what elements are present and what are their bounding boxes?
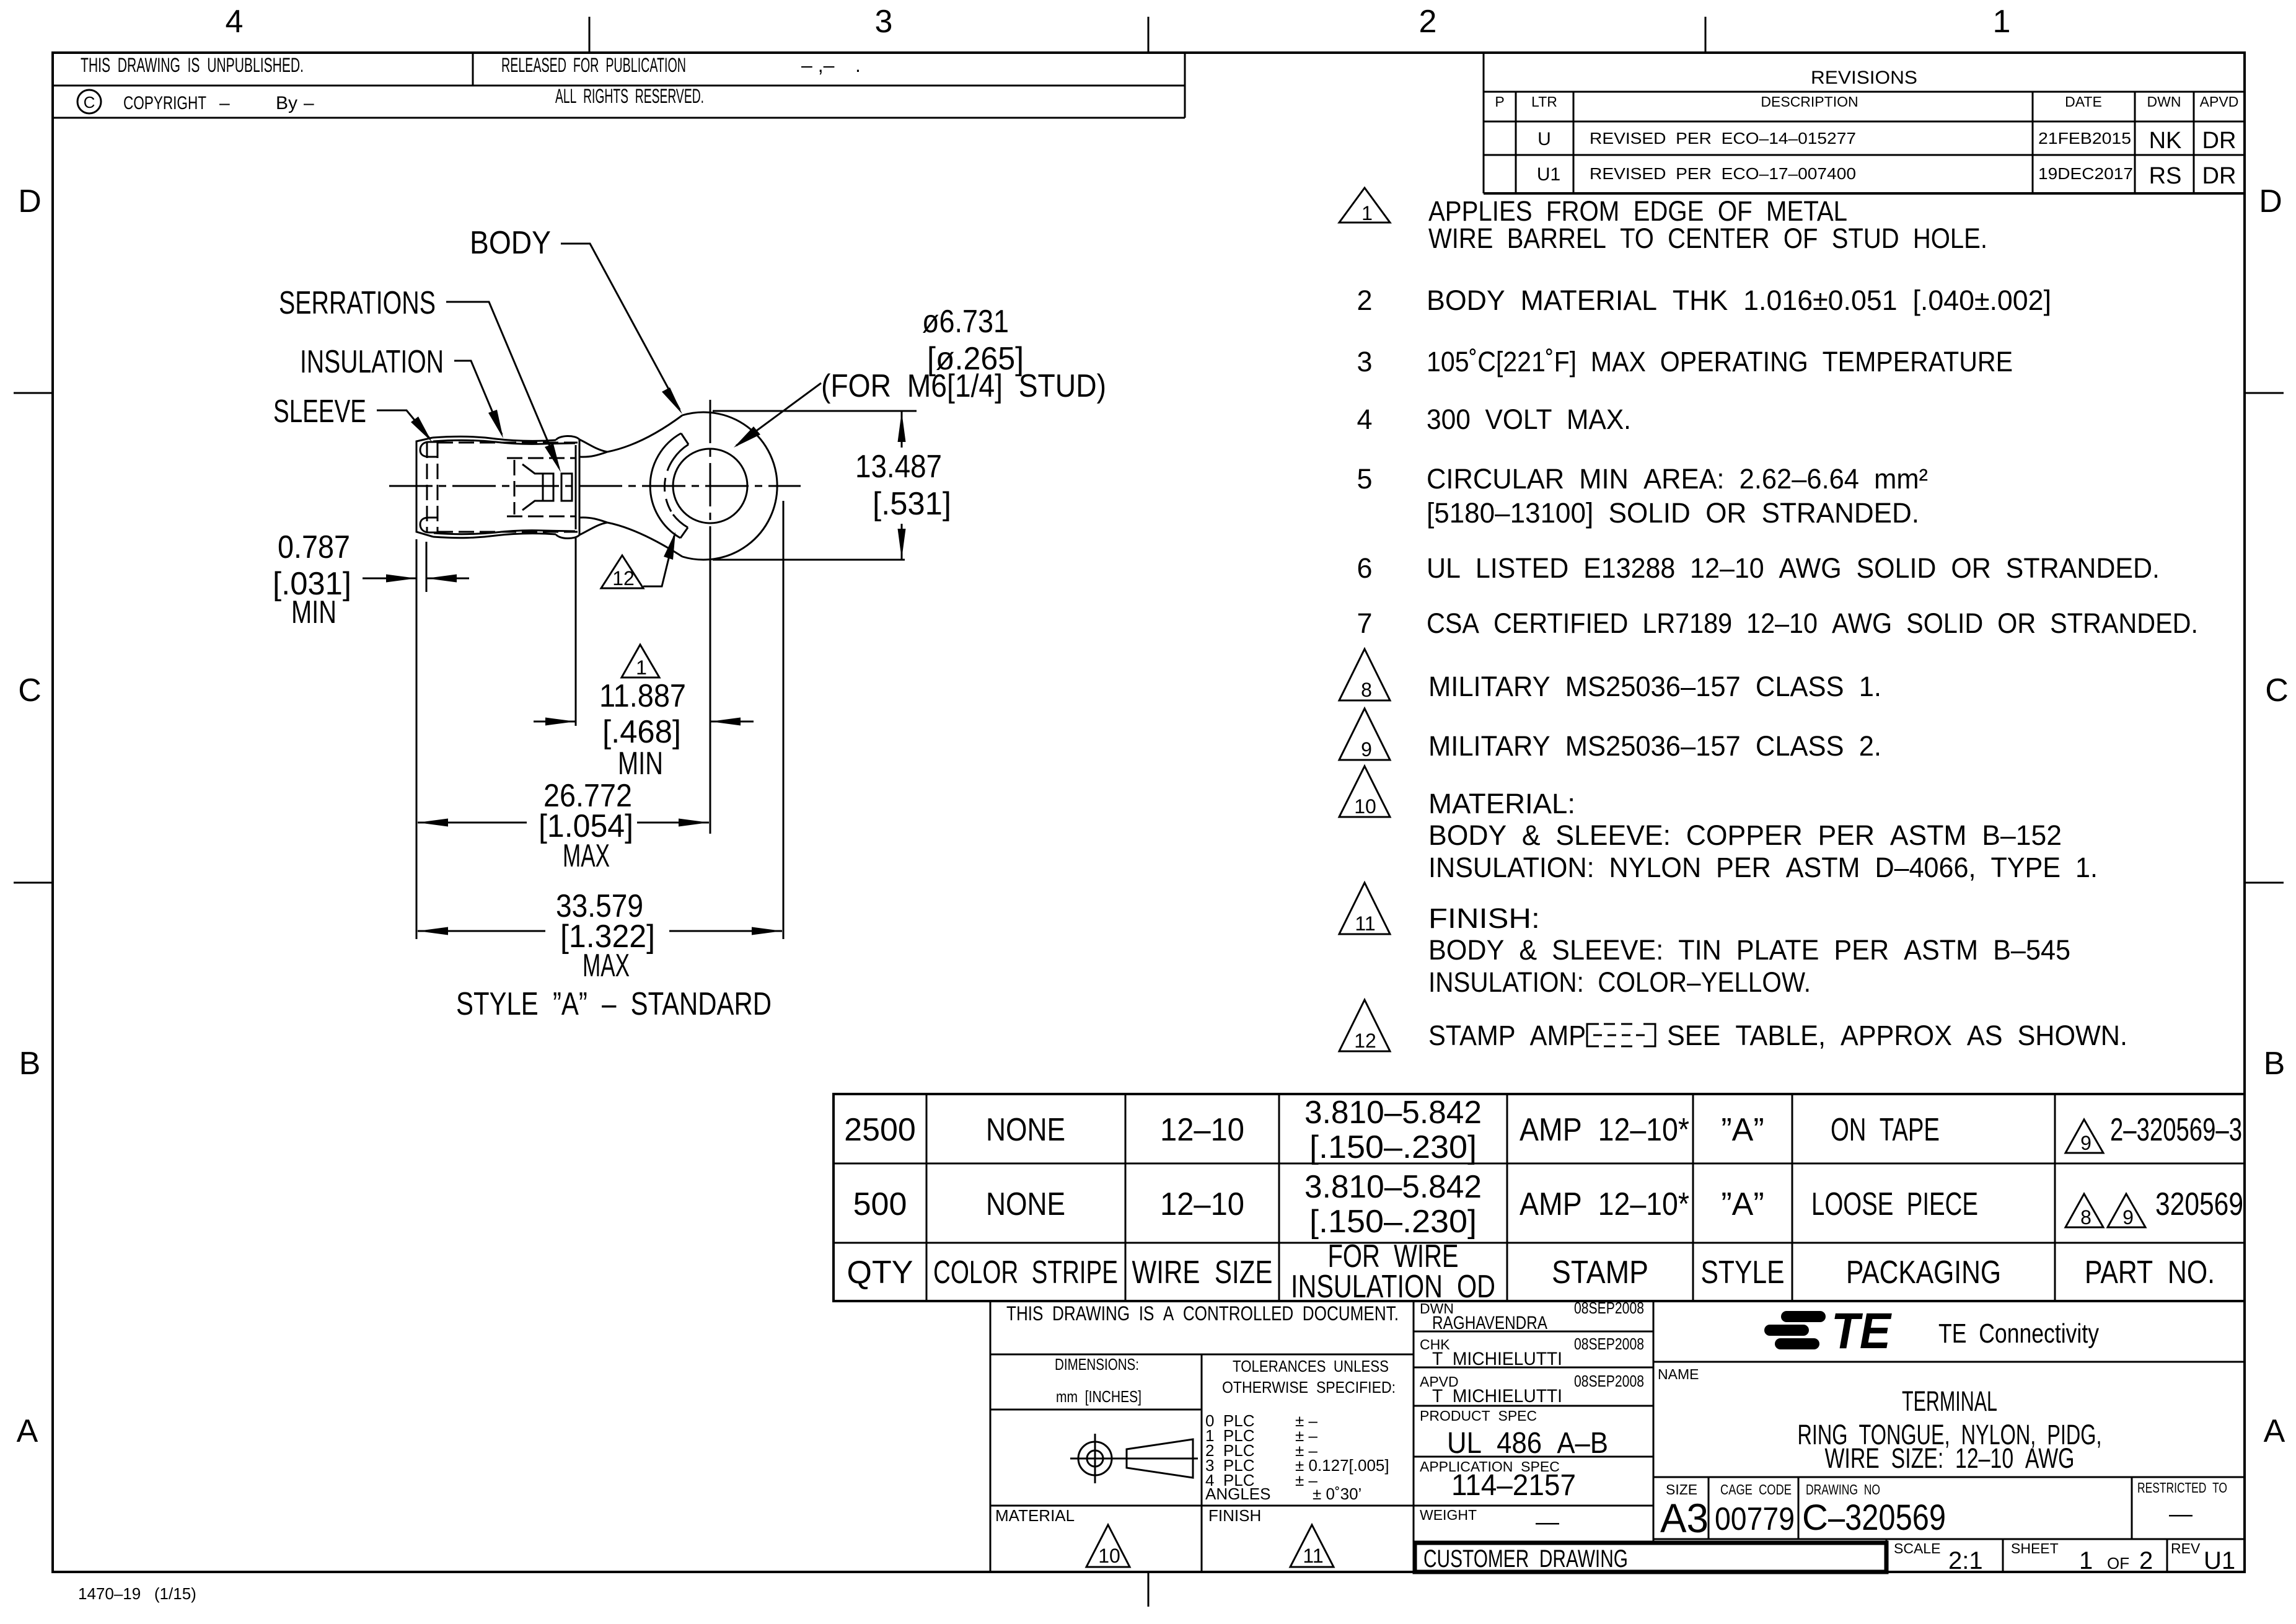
svg-text:08SEP2008: 08SEP2008 [1574,1335,1644,1353]
neck top transition from insulation corner [579,439,607,452]
svg-text:10: 10 [1098,1545,1120,1567]
svg-text:ANGLES: ANGLES [1205,1485,1271,1503]
svg-text:1: 1 [1993,4,2011,40]
svg-text:RESTRICTED TO: RESTRICTED TO [2137,1480,2227,1496]
svg-text:BODY MATERIAL THK 1.016±0.0: BODY MATERIAL THK 1.016±0.051 [.040±.002… [1427,285,2051,316]
svg-text:21FEB2015: 21FEB2015 [2038,129,2131,148]
note 8 flag triangle [1339,649,1390,700]
svg-text:AMP 12–10*: AMP 12–10* [1520,1186,1689,1222]
svg-text:–320569: –320569 [1828,1498,1946,1538]
svg-text:4: 4 [226,4,244,40]
neck top edge to ring [607,415,682,452]
insulation bottom edge [433,534,556,538]
svg-text:2: 2 [1419,4,1437,40]
svg-text:–: – [304,93,314,113]
svg-text:T MICHIELUTTI: T MICHIELUTTI [1432,1349,1562,1369]
extension line barrel end [575,538,577,726]
svg-text:10: 10 [1354,795,1376,818]
svg-text:12: 12 [612,567,635,589]
copyright box [53,53,1185,118]
extension line ring bottom [713,559,905,561]
svg-text:STYLE ”A” – STANDARD: STYLE ”A” – STANDARD [456,986,772,1022]
svg-text:LOOSE PIECE: LOOSE PIECE [1811,1186,1978,1222]
stud hole leader [736,383,821,446]
svg-text:500: 500 [853,1186,907,1222]
svg-text:PRODUCT SPEC: PRODUCT SPEC [1420,1408,1537,1424]
svg-text:± 0˚30’: ± 0˚30’ [1313,1485,1361,1503]
svg-text:2: 2 [2139,1547,2153,1574]
svg-text:WIRE SIZE: 12–10 AWG: WIRE SIZE: 12–10 AWG [1825,1442,2075,1474]
terminal drawing [389,400,801,834]
svg-text:2: 2 [1357,285,1372,316]
wire chevron bottom [522,501,543,510]
svg-text:MIN: MIN [618,746,663,782]
svg-text:FINISH:: FINISH: [1428,902,1540,934]
svg-text:08SEP2008: 08SEP2008 [1574,1299,1644,1317]
top zone ticks [589,17,591,53]
neck bottom edge to ring [607,523,682,557]
svg-text:.: . [855,54,861,76]
hidden vertical wire end [514,460,516,514]
svg-text:7: 7 [1357,607,1372,639]
note 11 flag triangle [1339,883,1390,934]
svg-text:6: 6 [1357,552,1372,584]
svg-text:THIS DRAWING IS A CONTROLL: THIS DRAWING IS A CONTROLLED DOCUMENT. [1006,1302,1399,1325]
svg-text:9: 9 [2080,1132,2091,1154]
svg-text:U: U [1537,129,1551,149]
svg-text:mm [INCHES]: mm [INCHES] [1056,1387,1141,1406]
svg-text:WEIGHT: WEIGHT [1420,1507,1477,1523]
svg-text:[.150–.230]: [.150–.230] [1309,1129,1477,1165]
svg-text:ON TAPE: ON TAPE [1831,1112,1940,1148]
barrel top bump [556,436,579,440]
svg-text:1470–19 (1/15): 1470–19 (1/15) [78,1584,196,1603]
svg-text:RS: RS [2149,163,2182,189]
svg-text:00779: 00779 [1715,1501,1795,1537]
svg-text:DR: DR [2202,163,2237,189]
svg-text:BODY & SLEEVE: TIN PLATE: BODY & SLEEVE: TIN PLATE PER ASTM B–545 [1428,934,2070,966]
svg-text:DIMENSIONS:: DIMENSIONS: [1055,1355,1139,1374]
svg-text:NK: NK [2149,128,2182,154]
svg-text:12–10: 12–10 [1160,1112,1244,1148]
svg-text:CAGE CODE: CAGE CODE [1720,1481,1792,1498]
svg-text:2:1: 2:1 [1948,1547,1983,1574]
svg-text:C: C [1802,1498,1828,1538]
barrel front face [579,439,581,535]
svg-text:TE: TE [1831,1303,1892,1359]
svg-text:13.487: 13.487 [855,449,942,485]
svg-text:A: A [2264,1413,2285,1449]
svg-text:QTY: QTY [847,1255,913,1291]
svg-text:REVISIONS: REVISIONS [1811,68,1917,88]
svg-text:12: 12 [1354,1030,1376,1052]
svg-text:RELEASED FOR PUBLICATION: RELEASED FOR PUBLICATION [501,54,686,76]
svg-text:SEE TABLE, APPROX AS SHOWN: SEE TABLE, APPROX AS SHOWN. [1667,1020,2127,1051]
sleeve rolled lip bottom [420,518,438,532]
svg-text:TE Connectivity: TE Connectivity [1938,1318,2099,1349]
svg-text:U1: U1 [2204,1547,2235,1574]
svg-text:0.787: 0.787 [278,529,350,565]
svg-text:INSULATION: NYLON PER ASTM: INSULATION: NYLON PER ASTM D–4066, TYPE … [1428,852,2098,883]
wire chevron top [522,464,543,474]
svg-text:INSULATION: INSULATION [300,344,444,380]
svg-text:—: — [1536,1509,1559,1535]
svg-text:INSULATION OD: INSULATION OD [1291,1269,1495,1305]
extension line ring top [713,410,917,412]
svg-text:105˚C[221˚F] MAX OPERATING: 105˚C[221˚F] MAX OPERATING TEMPERATURE [1427,346,2013,377]
svg-text:ø6.731: ø6.731 [922,304,1009,340]
hidden line barrel bottom [438,531,578,533]
svg-text:9: 9 [2122,1206,2134,1229]
svg-text:4: 4 [1357,404,1372,435]
svg-text:STYLE: STYLE [1701,1255,1785,1291]
svg-text:MILITARY MS25036–157 CLASS: MILITARY MS25036–157 CLASS 1. [1428,671,1881,702]
svg-text:TOLERANCES UNLESS: TOLERANCES UNLESS [1233,1357,1389,1375]
svg-text:PART NO.: PART NO. [2085,1255,2215,1291]
part number table [834,1094,2245,1305]
note 1 flag on drawing [622,645,659,677]
svg-text:[.468]: [.468] [602,714,681,750]
svg-text:B: B [19,1046,41,1082]
svg-text:A3: A3 [1660,1495,1709,1541]
hidden line sleeve vertical 1 [426,443,428,532]
right zone ticks [2245,392,2284,394]
notes column [1339,188,2198,1052]
svg-text:SHEET: SHEET [2011,1540,2059,1556]
svg-text:—: — [2169,1501,2193,1527]
svg-text:NONE: NONE [986,1112,1065,1148]
svg-text:STAMP: STAMP [1552,1255,1648,1291]
svg-text:BODY: BODY [470,225,551,261]
svg-text:OF: OF [2107,1554,2129,1573]
svg-text:–: – [219,93,230,113]
svg-text:[.150–.230]: [.150–.230] [1309,1204,1477,1240]
vertical centerline / extension line [710,400,711,567]
approvals column [1414,1331,1653,1333]
svg-text:STAMP AMP: STAMP AMP [1428,1020,1586,1051]
svg-text:CIRCULAR MIN AREA: 2.62–6.6: CIRCULAR MIN AREA: 2.62–6.64 mm² [1427,463,1928,495]
sleeve outline [416,438,433,537]
svg-text:19DEC2017: 19DEC2017 [2038,164,2133,183]
svg-text:[5180–13100] SOLID OR STRAN: [5180–13100] SOLID OR STRANDED. [1427,497,1919,529]
svg-text:C: C [84,93,95,112]
svg-text:DR: DR [2202,128,2237,154]
svg-text:114–2157: 114–2157 [1451,1469,1576,1502]
svg-text:UL LISTED E13288 12–10 AWG: UL LISTED E13288 12–10 AWG SOLID OR STRA… [1427,552,2160,584]
note 12 stamp box symbol [1587,1024,1599,1046]
svg-text:COPYRIGHT: COPYRIGHT [123,93,206,113]
note 1 flag triangle [1339,188,1390,223]
TE logo bars [1781,1311,1826,1322]
stamp band top end cap [681,433,688,444]
stamp band inner arc hidden [664,459,674,514]
svg-text:LTR: LTR [1531,94,1557,110]
svg-text:B: B [2264,1046,2285,1082]
note 9 flag triangle [1339,708,1390,760]
svg-text:SERRATIONS: SERRATIONS [279,285,436,321]
svg-text:C: C [18,673,42,708]
barrel metal front edge [575,445,577,529]
svg-text:P: P [1495,94,1504,110]
svg-text:3: 3 [875,4,893,40]
neck bottom edge from barrel [580,518,607,523]
svg-text:AMP 12–10*: AMP 12–10* [1520,1112,1689,1148]
svg-text:DRAWING NO: DRAWING NO [1806,1481,1880,1498]
hidden line grip bottom [507,516,576,518]
svg-text:5: 5 [1357,463,1372,495]
svg-text:REVISED PER ECO–14–015277: REVISED PER ECO–14–015277 [1590,129,1856,148]
svg-text:NONE: NONE [986,1186,1065,1222]
svg-text:MATERIAL:: MATERIAL: [1428,788,1575,819]
svg-text:THIS DRAWING IS UNPUBLISHED: THIS DRAWING IS UNPUBLISHED. [81,54,304,76]
customer drawing box [1415,1543,1886,1572]
svg-text:9: 9 [1361,738,1372,761]
svg-text:UL 486 A–B: UL 486 A–B [1447,1427,1608,1460]
svg-text:C: C [2265,673,2289,708]
serration rectangle 1 [543,474,553,501]
svg-text:11.887: 11.887 [599,678,686,714]
svg-text:(FOR M6[1/4] STUD): (FOR M6[1/4] STUD) [821,368,1106,404]
svg-text:BODY & SLEEVE: COPPER PER: BODY & SLEEVE: COPPER PER ASTM B–152 [1428,819,2062,851]
stud hole circle [673,449,747,523]
neck bottom transition from insulation corner [579,523,607,535]
svg-text:SLEEVE: SLEEVE [273,394,366,430]
svg-text:U1: U1 [1537,164,1560,185]
svg-text:8: 8 [1361,679,1372,701]
svg-text:REV: REV [2171,1540,2201,1556]
leader labels [273,225,1106,679]
stamp band bottom end cap [680,527,688,538]
svg-text:REVISED PER ECO–17–007400: REVISED PER ECO–17–007400 [1590,164,1856,183]
svg-text:WIRE SIZE: WIRE SIZE [1132,1255,1273,1291]
svg-text:D: D [18,183,42,219]
svg-text:OTHERWISE SPECIFIED:: OTHERWISE SPECIFIED: [1222,1378,1396,1397]
svg-text:D: D [2259,183,2282,219]
insulation top inner edge [433,440,575,444]
svg-text:2–320569–3: 2–320569–3 [2110,1112,2242,1148]
horizontal centerline [389,485,801,487]
svg-text:08SEP2008: 08SEP2008 [1574,1372,1644,1390]
svg-text:”A”: ”A” [1721,1186,1764,1222]
note 12 leader [643,536,674,586]
TE logo block [1653,1303,2245,1362]
svg-text:– ,–: – ,– [801,54,835,76]
stamp band inner arc solid bottom [673,514,688,527]
svg-text:12–10: 12–10 [1160,1186,1244,1222]
svg-text:3.810–5.842: 3.810–5.842 [1304,1095,1482,1131]
svg-text:By: By [276,93,297,113]
svg-text:PACKAGING: PACKAGING [1846,1255,2001,1291]
svg-text:3: 3 [1357,346,1372,377]
svg-text:DWN: DWN [2147,94,2181,110]
svg-text:1: 1 [1361,202,1373,224]
barrel bottom bump [556,534,579,539]
name block [1653,1366,2245,1574]
svg-text:MAX: MAX [563,838,610,874]
svg-text:WIRE BARREL TO CENTER OF: WIRE BARREL TO CENTER OF STUD HOLE. [1428,223,1987,254]
extension line insulation grip [426,542,428,592]
ring outer circle arc [682,412,777,560]
svg-text:8: 8 [2080,1206,2091,1229]
svg-text:ALL RIGHTS RESERVED.: ALL RIGHTS RESERVED. [555,85,704,107]
svg-text:TERMINAL: TERMINAL [1902,1385,1997,1417]
note 12 flag triangle [1339,1000,1390,1051]
svg-text:3.810–5.842: 3.810–5.842 [1304,1169,1482,1205]
svg-text:[.531]: [.531] [873,486,951,522]
bottom zone tick [1148,1572,1150,1607]
svg-text:1: 1 [2079,1547,2093,1574]
svg-text:11: 11 [1303,1545,1323,1567]
stamp band outer arc [650,433,681,538]
svg-text:”A”: ”A” [1721,1112,1764,1148]
hidden line sleeve vertical 2 [437,443,439,532]
svg-text:11: 11 [1355,912,1375,935]
hidden line barrel top [438,442,578,444]
svg-text:CSA CERTIFIED LR7189 12–10: CSA CERTIFIED LR7189 12–10 AWG SOLID OR … [1427,607,2198,639]
svg-text:SCALE: SCALE [1894,1540,1940,1556]
extension line ring right [783,501,785,939]
svg-text:DESCRIPTION: DESCRIPTION [1761,94,1858,110]
svg-text:NAME: NAME [1658,1366,1699,1382]
svg-text:MIN: MIN [291,594,336,630]
note 10 flag triangle [1339,766,1390,817]
svg-text:320569: 320569 [2155,1186,2243,1222]
svg-text:T MICHIELUTTI: T MICHIELUTTI [1432,1386,1562,1406]
svg-text:2500: 2500 [844,1112,916,1148]
svg-text:MILITARY MS25036–157 CLASS: MILITARY MS25036–157 CLASS 2. [1428,730,1881,762]
note 12 flag on drawing [601,555,643,588]
insulation top edge [433,436,556,441]
dimensions [273,411,951,1022]
title block [990,1299,1886,1573]
projection symbol [1078,1442,1112,1475]
left zone ticks [14,392,53,394]
hidden line grip top [507,457,576,459]
insulation bottom inner edge [434,531,575,534]
svg-text:RAGHAVENDRA: RAGHAVENDRA [1432,1313,1547,1333]
svg-text:300 VOLT MAX.: 300 VOLT MAX. [1427,404,1631,435]
sleeve rolled lip top [420,442,438,457]
svg-text:FINISH: FINISH [1208,1506,1261,1525]
svg-text:MAX: MAX [583,948,630,984]
svg-text:APVD: APVD [2200,94,2239,110]
serration rectangle 2 [561,474,572,501]
svg-text:MATERIAL: MATERIAL [995,1506,1075,1525]
svg-text:CUSTOMER DRAWING: CUSTOMER DRAWING [1423,1545,1628,1573]
svg-text:DATE: DATE [2065,94,2102,110]
neck top edge from barrel [580,452,607,457]
stamp band inner arc solid top [674,444,688,459]
extension line sleeve front [416,539,418,939]
svg-text:COLOR STRIPE: COLOR STRIPE [933,1255,1118,1291]
svg-text:INSULATION: COLOR–YELLOW.: INSULATION: COLOR–YELLOW. [1428,966,1811,998]
svg-text:A: A [17,1413,38,1449]
revisions table [1484,53,2245,193]
svg-text:1: 1 [636,656,647,679]
